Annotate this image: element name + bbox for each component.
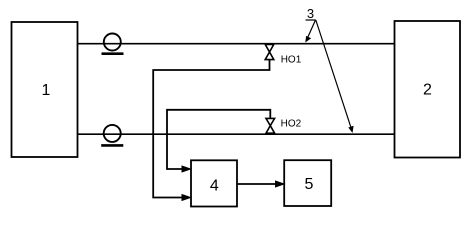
svg-text:HO1: HO1: [281, 54, 302, 65]
leader line 3 to top pipe: [307, 20, 316, 39]
arrow into block 4 lower: [182, 195, 191, 201]
svg-text:5: 5: [305, 176, 314, 193]
svg-text:2: 2: [423, 82, 432, 99]
arrow into block 5: [276, 181, 285, 187]
wire valve HO2 to block 4: [167, 110, 270, 169]
svg-text:HO2: HO2: [281, 118, 302, 129]
wire top pipe: [78, 43, 395, 45]
svg-text:1: 1: [42, 82, 51, 99]
block 2: [395, 21, 461, 158]
valve HO2: [266, 118, 275, 133]
block 1: [12, 22, 78, 157]
pump P2: [101, 125, 123, 146]
wire block 4 to block 5: [237, 183, 280, 185]
arrow into block 4 upper: [182, 166, 191, 172]
wire bottom pipe: [78, 133, 395, 135]
label 3: [306, 6, 316, 21]
valve HO1: [265, 44, 274, 59]
svg-text:3: 3: [307, 6, 314, 21]
arrow leader 2: [348, 126, 353, 133]
block 5: [284, 160, 331, 206]
wire valve HO1 to block 4: [153, 60, 269, 198]
pump P1: [102, 34, 124, 54]
arrow leader 1: [305, 36, 311, 43]
leader line 3 to bottom pipe: [316, 20, 352, 129]
block 4: [191, 160, 237, 206]
svg-text:4: 4: [210, 177, 219, 194]
